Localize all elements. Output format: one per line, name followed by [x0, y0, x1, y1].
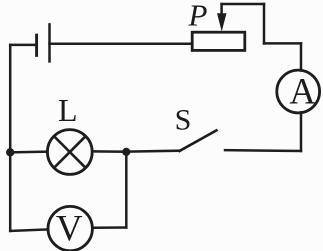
wire step horizontal to ammeter column — [264, 42, 301, 45]
svg-text:A: A — [289, 70, 316, 111]
lamp L cross stroke 2 — [54, 136, 85, 167]
wire node A to lamp left — [10, 150, 47, 153]
wire left vertical (battery negative to bottom corner) — [9, 45, 12, 231]
svg-text:L: L — [58, 92, 78, 128]
svg-text:V: V — [56, 209, 83, 250]
rheostat P body rectangle — [192, 32, 245, 50]
wire top-left (left corner to battery) — [10, 44, 36, 47]
node A junction dot — [6, 148, 14, 156]
wire battery positive to rheostat left terminal — [50, 42, 193, 45]
node B junction dot — [122, 148, 130, 156]
wire wiper top horizontal — [222, 3, 264, 6]
lamp L cross stroke 1 — [54, 136, 85, 167]
wire step vertical — [263, 4, 266, 43]
battery cell long positive plate — [48, 24, 51, 61]
wire ammeter bottom down — [300, 112, 303, 151]
rheostat wiper arrow shaft — [220, 4, 223, 17]
wire down to ammeter top — [300, 43, 303, 70]
lamp L circle — [47, 130, 92, 175]
rheostat wiper arrowhead — [217, 13, 227, 31]
voltmeter U=V circle — [48, 206, 92, 250]
wire voltmeter left to bottom corner — [10, 229, 48, 231]
svg-text:P: P — [188, 0, 208, 32]
wire voltmeter branch vertical from node B — [125, 152, 128, 228]
wire bottom-right horizontal to switch contact — [225, 149, 301, 152]
wire voltmeter right horizontal — [92, 226, 126, 229]
ammeter U=A circle — [277, 70, 320, 113]
switch S blade (open) — [180, 130, 217, 151]
battery cell short negative plate — [35, 35, 38, 55]
wire switch pivot to node B — [126, 151, 179, 152]
wire lamp right to node B — [92, 150, 126, 153]
svg-text:S: S — [175, 104, 192, 137]
